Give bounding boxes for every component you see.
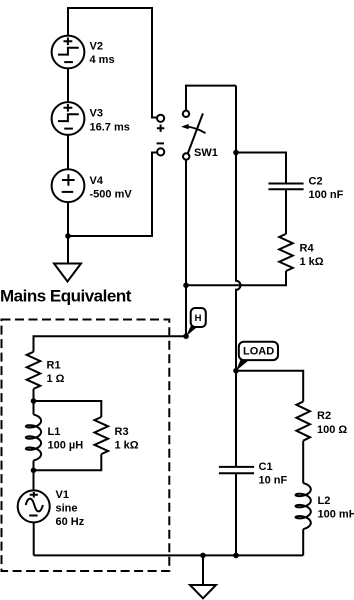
voltage source V2 <box>52 36 115 69</box>
node LOAD junction <box>233 368 239 374</box>
wire V2-V3 <box>67 68 69 103</box>
resistor R1 <box>27 352 65 389</box>
node L1/R3/V1 <box>31 468 37 474</box>
voltage source V1 <box>18 489 85 528</box>
wire L2 bottom <box>302 529 304 555</box>
svg-text:R4: R4 <box>300 243 315 255</box>
voltage source V3 <box>52 102 130 135</box>
svg-text:1 kΩ: 1 kΩ <box>300 256 324 268</box>
svg-text:sine: sine <box>56 503 78 515</box>
wire R4 bottom to H-junction <box>186 271 286 285</box>
label H flag <box>186 308 206 336</box>
svg-text:C2: C2 <box>309 175 323 187</box>
svg-text:R1: R1 <box>47 360 61 372</box>
wire R2 to L2 <box>302 441 304 483</box>
node main vertical bottom <box>233 553 239 559</box>
svg-text:C1: C1 <box>259 461 273 473</box>
capacitor C2 <box>268 175 343 201</box>
terminal + (top) <box>157 115 164 122</box>
wire down to corner <box>185 285 187 336</box>
ground (bottom) <box>190 555 216 598</box>
wire R3 bottom <box>34 454 102 470</box>
svg-text:100 nF: 100 nF <box>309 189 344 201</box>
svg-text:1 kΩ: 1 kΩ <box>115 440 139 452</box>
wire V3-V4 <box>67 135 69 170</box>
wire L1 bottom lead <box>33 461 35 471</box>
bottom rail <box>34 554 304 556</box>
wire C1 bottom <box>235 473 237 555</box>
inductor L2 <box>296 483 354 529</box>
svg-text:100 mH: 100 mH <box>318 509 354 521</box>
label LOAD flag <box>236 342 278 371</box>
wire V4 to ground node <box>67 202 69 236</box>
svg-text:4 ms: 4 ms <box>90 54 115 66</box>
svg-text:100 Ω: 100 Ω <box>317 424 347 436</box>
capacitor C1 <box>219 461 288 487</box>
svg-text:Mains Equivalent: Mains Equivalent <box>0 287 132 306</box>
svg-text:L1: L1 <box>48 426 61 438</box>
resistor R4 <box>279 234 324 271</box>
svg-text:R3: R3 <box>115 426 129 438</box>
resistor R3 <box>95 417 139 454</box>
wire SW1 bottom to H-junction <box>185 160 187 286</box>
plus label <box>157 125 164 132</box>
node corner junction <box>183 333 189 339</box>
switch SW1 <box>181 111 218 160</box>
wire LOAD to R2 branch <box>236 371 303 402</box>
node H junction <box>183 283 189 289</box>
wire corner to R1 <box>34 336 187 352</box>
voltage source V4 <box>52 169 133 202</box>
main vertical wire with hop <box>236 86 241 467</box>
wire L1 top lead <box>33 401 35 415</box>
svg-text:60 Hz: 60 Hz <box>56 516 85 528</box>
svg-text:LOAD: LOAD <box>243 346 274 358</box>
svg-text:100 µH: 100 µH <box>48 440 84 452</box>
node junction dot <box>65 233 71 239</box>
node R1/L1/R3 <box>31 398 37 404</box>
node C2 branch junction <box>233 150 239 156</box>
inductor L1 <box>26 415 83 461</box>
wire to R3 branch <box>34 401 102 417</box>
wire top-left loop <box>68 8 157 118</box>
dashed enclosure box <box>2 320 170 572</box>
wire V1 to bottom rail <box>33 522 35 555</box>
svg-text:16.7 ms: 16.7 ms <box>90 122 130 134</box>
wire R1 to node <box>33 389 35 401</box>
svg-text:1 Ω: 1 Ω <box>47 373 65 385</box>
resistor R2 <box>296 402 347 441</box>
svg-text:L2: L2 <box>318 495 331 507</box>
node ground tap <box>200 553 206 559</box>
svg-text:V2: V2 <box>90 41 103 53</box>
ground (top) <box>54 236 81 282</box>
wire node to V1 <box>33 470 35 490</box>
svg-text:V3: V3 <box>90 108 103 120</box>
wire C2 to R4 <box>285 189 287 234</box>
svg-text:-500 mV: -500 mV <box>90 189 133 201</box>
svg-text:H: H <box>195 313 202 324</box>
svg-text:V4: V4 <box>90 175 104 187</box>
svg-text:SW1: SW1 <box>194 147 218 159</box>
minus label <box>157 142 164 144</box>
wire bottom of source stack to right <box>68 153 157 237</box>
terminal - (bottom) <box>157 148 164 155</box>
svg-text:V1: V1 <box>56 489 69 501</box>
wire SW1 top <box>186 86 236 111</box>
svg-text:R2: R2 <box>317 410 331 422</box>
wire C2 branch top <box>236 153 286 184</box>
svg-text:10 nF: 10 nF <box>259 475 288 487</box>
